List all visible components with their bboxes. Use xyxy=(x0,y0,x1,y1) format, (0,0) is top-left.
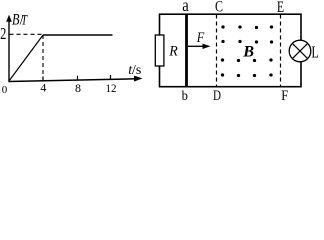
svg-text:F: F xyxy=(196,30,205,46)
graph x-axis xyxy=(9,76,143,82)
svg-text:L: L xyxy=(311,43,319,62)
svg-text:R: R xyxy=(168,43,177,59)
svg-text:2: 2 xyxy=(0,24,6,43)
tick t=4 xyxy=(42,76,44,81)
dashed drop t=4 xyxy=(42,35,44,81)
svg-text:0: 0 xyxy=(2,84,8,96)
bar ab xyxy=(185,14,188,87)
dashed level B=2 xyxy=(10,33,44,35)
svg-text:12: 12 xyxy=(106,81,117,95)
svg-text:E: E xyxy=(277,0,284,16)
svg-text:8: 8 xyxy=(75,81,81,95)
field dots grid xyxy=(221,25,273,77)
svg-text:D: D xyxy=(213,88,221,101)
dashed rail C-D xyxy=(216,15,218,87)
svg-text:a: a xyxy=(182,0,189,15)
force F arrow xyxy=(188,30,211,49)
tick t=8 xyxy=(77,76,79,81)
resistor R xyxy=(155,35,177,66)
svg-text:C: C xyxy=(215,0,223,16)
svg-text:B: B xyxy=(12,11,20,28)
curve plateau xyxy=(43,34,113,36)
lamp L xyxy=(289,40,319,62)
dashed rail E-F xyxy=(280,15,282,87)
svg-text:B: B xyxy=(242,44,254,61)
svg-text:T: T xyxy=(21,12,28,28)
svg-text:4: 4 xyxy=(40,80,46,94)
svg-text:/s: /s xyxy=(132,63,141,78)
curve rising segment xyxy=(9,35,43,81)
tick t=12 xyxy=(110,75,112,80)
svg-text:F: F xyxy=(281,88,288,101)
graph y-axis xyxy=(6,15,12,83)
circuit outer loop xyxy=(160,14,302,87)
svg-text:b: b xyxy=(182,88,189,101)
